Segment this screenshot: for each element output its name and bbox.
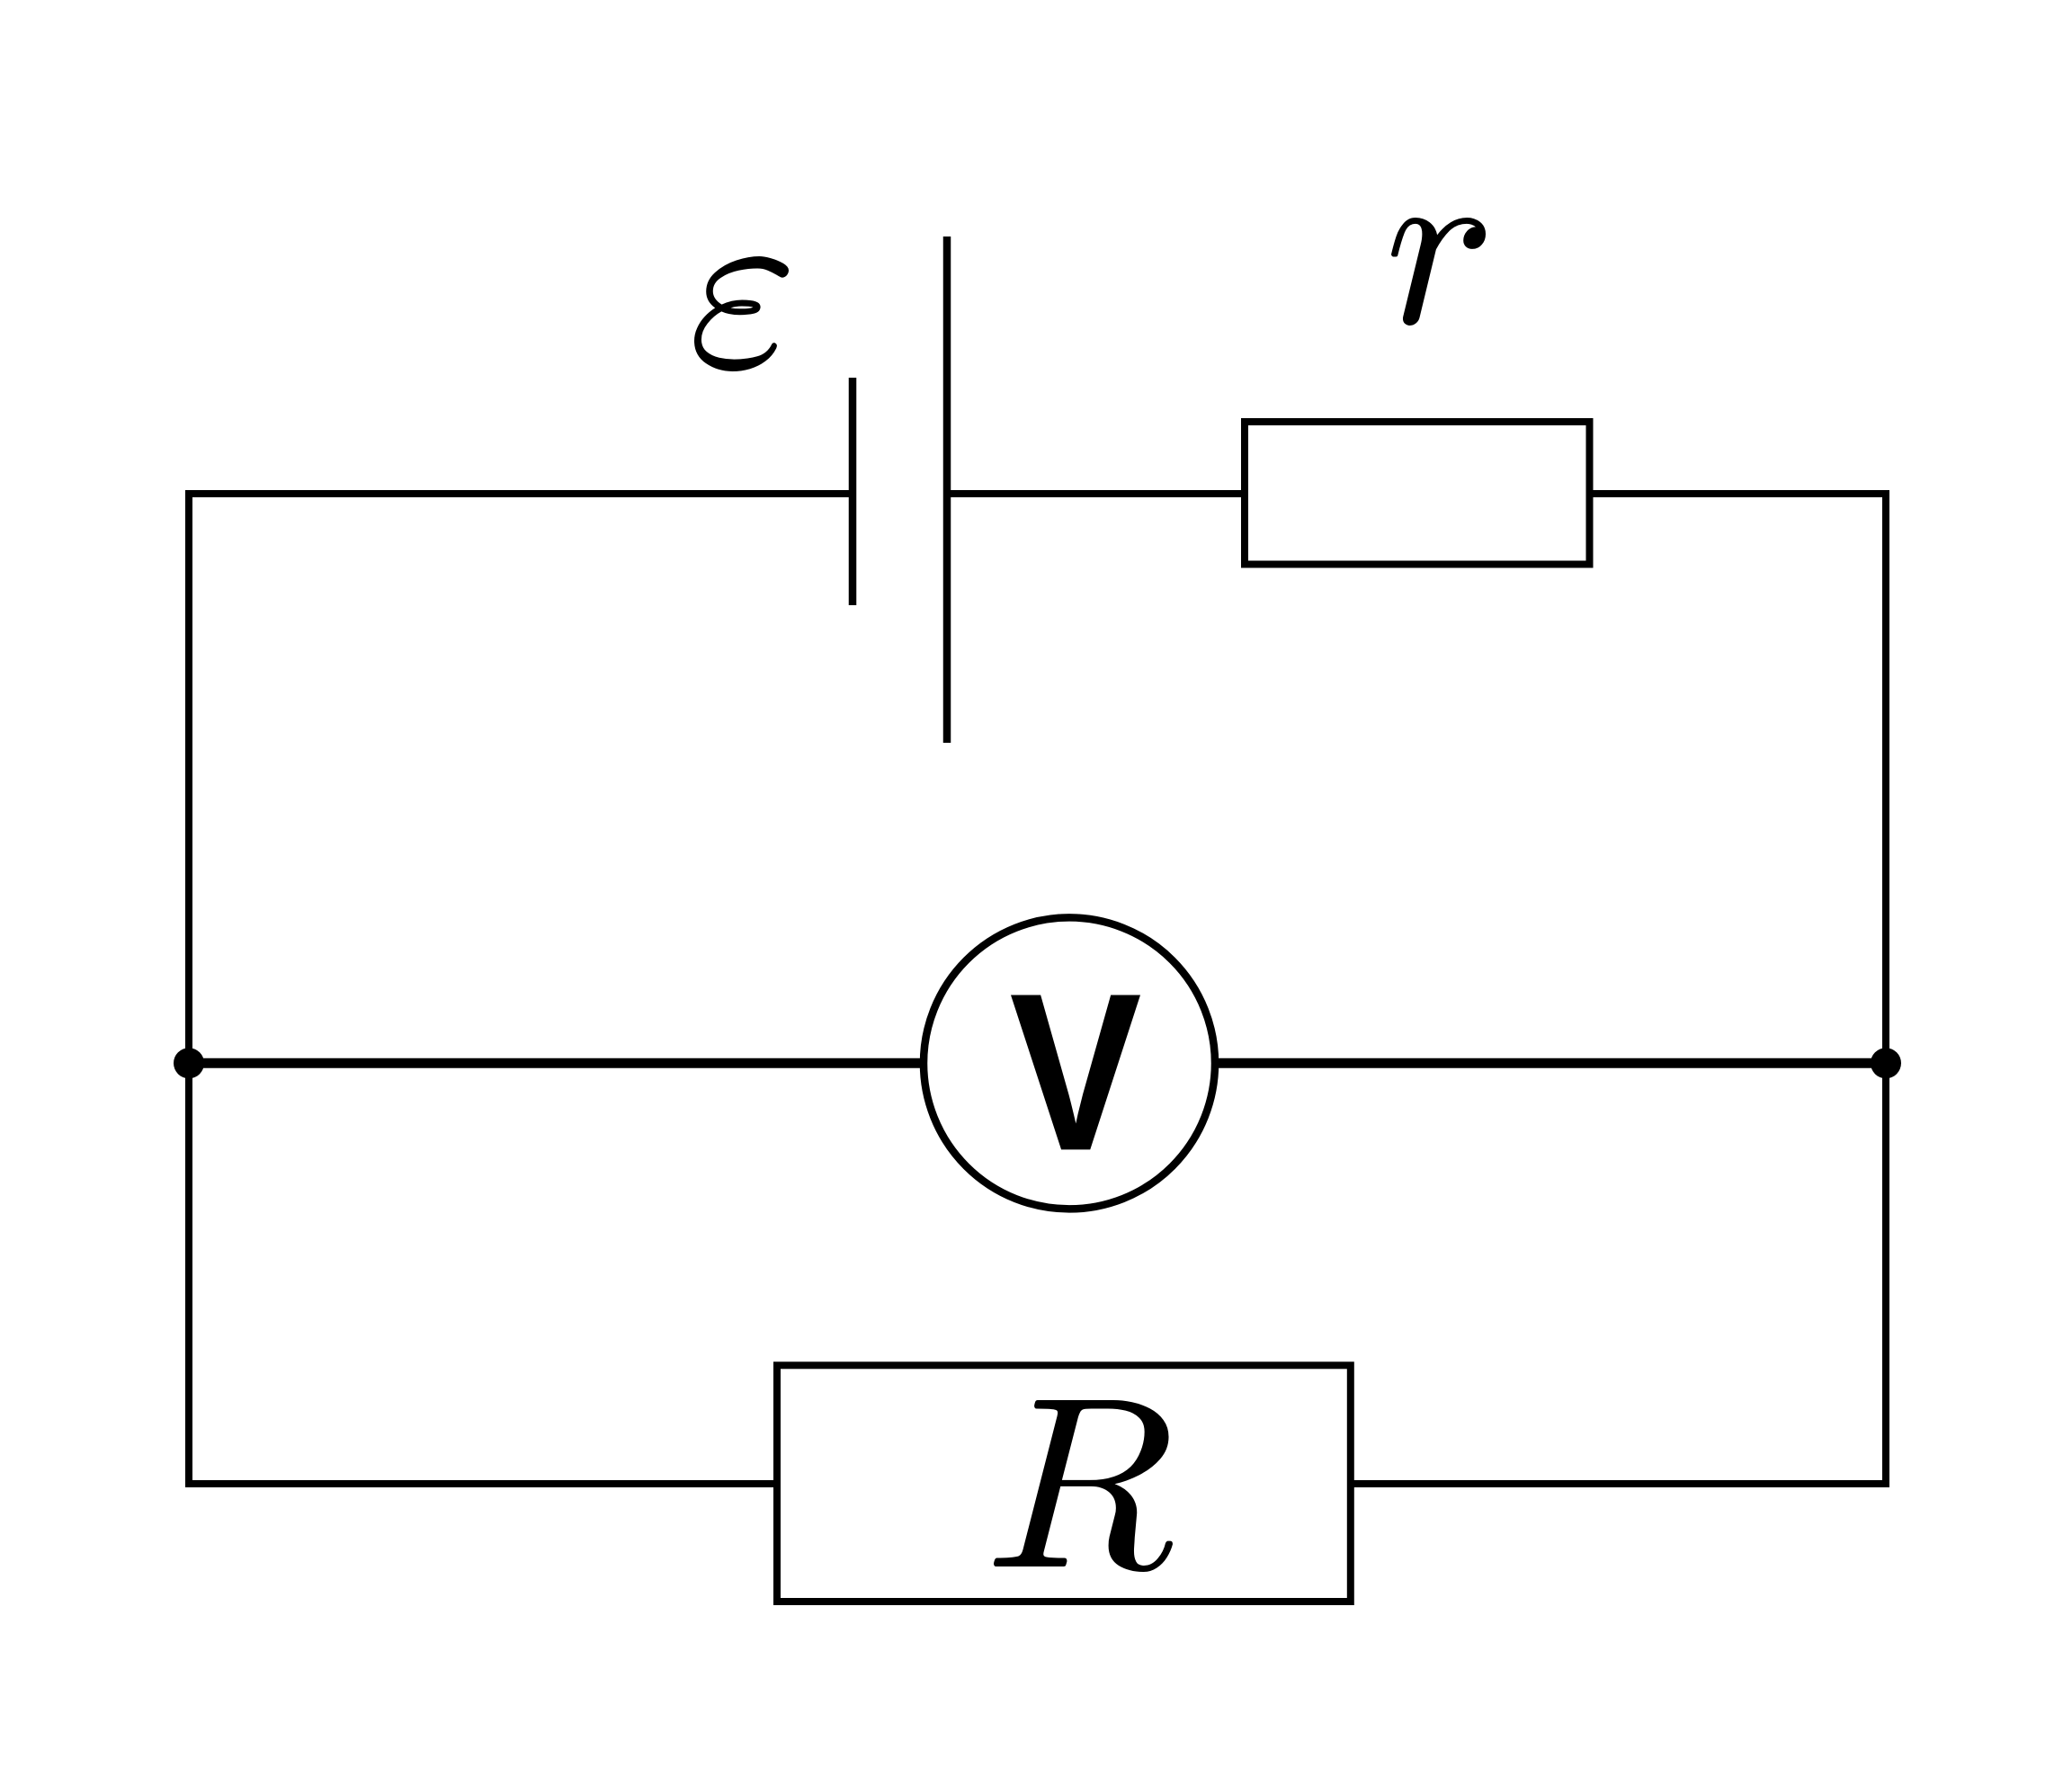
battery cell E: short negative plate xyxy=(849,378,857,605)
label epsilon (EMF) xyxy=(694,256,789,371)
wire: middle branch right (voltmeter to node B) xyxy=(1208,1058,1886,1068)
voltmeter V: letter xyxy=(1011,995,1140,1150)
label R xyxy=(994,1400,1173,1572)
resistor r (internal resistance) box xyxy=(1245,422,1590,565)
node A junction dot (left) xyxy=(174,1048,204,1078)
node B junction dot (right) xyxy=(1871,1048,1901,1078)
wire: top-left horizontal + left vertical + bottom-left horizontal xyxy=(189,494,853,1484)
wire: resistor r to right vertical + right vertical + bottom-right horizontal xyxy=(1351,494,1886,1484)
wire: middle branch left (node A to voltmeter) xyxy=(189,1058,931,1068)
label r xyxy=(1391,218,1486,326)
resistor R (load) box xyxy=(777,1365,1351,1602)
voltmeter V: circle xyxy=(924,917,1215,1209)
battery cell E: long positive plate xyxy=(943,237,951,743)
wire: battery positive plate to resistor r xyxy=(947,490,1245,497)
